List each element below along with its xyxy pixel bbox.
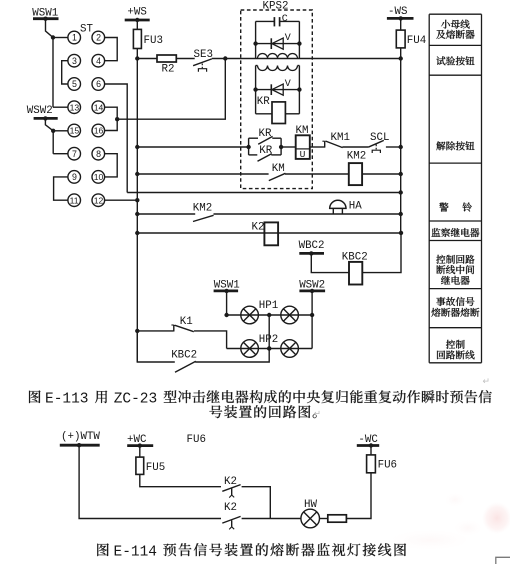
svg-text:9: 9 xyxy=(72,172,77,182)
wire left vertical to KBC2 contact xyxy=(137,331,175,362)
svg-text:KM2: KM2 xyxy=(193,203,212,215)
wire K1 to HP2 rail xyxy=(194,331,227,349)
svg-text:6: 6 xyxy=(96,79,101,89)
pin 8 xyxy=(92,147,105,160)
svg-text:5: 5 xyxy=(72,79,77,89)
pin 13 xyxy=(68,101,81,114)
svg-text:3: 3 xyxy=(72,56,77,66)
wire KPS2 right riser xyxy=(298,21,300,58)
annotation table xyxy=(428,14,430,363)
svg-text:11: 11 xyxy=(70,195,79,205)
caption figure E-114 xyxy=(97,543,108,556)
wire WSW1 drop xyxy=(226,291,228,315)
svg-text:V: V xyxy=(285,79,291,90)
wire pin 12 to left vertical xyxy=(105,199,138,201)
svg-text:ST: ST xyxy=(80,24,93,36)
svg-text:12: 12 xyxy=(94,195,104,205)
wire lamp to resistor xyxy=(320,518,328,520)
svg-text:HP1: HP1 xyxy=(259,300,278,312)
svg-text:10: 10 xyxy=(94,172,104,182)
pin 15 xyxy=(68,124,81,137)
wire WSW1 to pins 1 and 13 xyxy=(46,19,54,108)
wire KPS2 top rail xyxy=(256,20,275,22)
svg-text:KR: KR xyxy=(259,145,272,157)
svg-text:KM: KM xyxy=(272,163,285,175)
wire bracket pins 8-10 xyxy=(105,154,118,177)
resistor R (monitor) xyxy=(328,515,347,522)
table row 试验按钮 xyxy=(436,56,445,65)
svg-text:WSW2: WSW2 xyxy=(27,105,53,117)
svg-text:8: 8 xyxy=(96,149,101,159)
wire rail y214 left xyxy=(137,213,195,215)
svg-text:KR: KR xyxy=(257,96,270,108)
wire resistor to FU6 xyxy=(346,473,371,519)
pin 12 xyxy=(92,194,105,207)
wire KR contacts side rails xyxy=(248,138,250,155)
wire K2-rail corner to KBC2 coil xyxy=(362,233,401,273)
wire box-left to KR contacts xyxy=(137,146,248,148)
wire KR contacts to KM coil xyxy=(281,146,296,148)
pin 2 xyxy=(92,31,105,44)
svg-text:WBC2: WBC2 xyxy=(299,240,325,252)
diode V2 xyxy=(270,84,272,95)
wire bracket pins 14-16 xyxy=(105,107,118,130)
wire rail y233 xyxy=(137,232,401,234)
wire pins14-16 tap to SE3 node xyxy=(117,59,225,120)
wire right bus vertical xyxy=(400,48,402,233)
lamp HP1b xyxy=(281,306,299,324)
wire rail y174 left xyxy=(137,173,268,175)
wire KM coil to KM1 xyxy=(310,146,325,148)
pin 16 xyxy=(92,124,105,137)
wire FU5 to K2 upper xyxy=(140,474,221,486)
wire bracket pins 9-11 xyxy=(54,177,68,200)
svg-text:KPS2: KPS2 xyxy=(263,1,289,13)
pin 9 xyxy=(68,171,81,184)
svg-text:↵: ↵ xyxy=(483,376,491,386)
svg-text:R2: R2 xyxy=(162,64,175,76)
svg-text:15: 15 xyxy=(70,126,80,136)
resistor R2 xyxy=(157,55,176,62)
svg-text:K2: K2 xyxy=(252,221,265,233)
fuse FU5 xyxy=(136,457,144,474)
svg-text:2: 2 xyxy=(96,33,101,43)
svg-text:KM2: KM2 xyxy=(347,151,366,163)
svg-text:KM1: KM1 xyxy=(331,132,350,144)
wire WBC2 to KBC2 coil xyxy=(311,253,349,272)
svg-text:FU6: FU6 xyxy=(378,460,397,472)
wire bracket pins 3-5 xyxy=(62,61,68,84)
svg-text:K1: K1 xyxy=(180,316,193,328)
svg-text:E-113: E-113 xyxy=(45,392,89,408)
wire WSW2 to pins 15 and 7 xyxy=(45,118,53,153)
fuse FU6 xyxy=(367,455,376,473)
wire WTW down to bottom rail xyxy=(79,445,221,518)
table row 警铃 xyxy=(439,203,448,212)
fuse FU4 xyxy=(396,30,405,48)
corner box fragment xyxy=(496,557,510,564)
svg-text:K2: K2 xyxy=(224,502,237,514)
svg-text:HA: HA xyxy=(349,201,362,213)
wire +WS to FU3 xyxy=(136,20,138,29)
pin 4 xyxy=(92,54,105,67)
pin 14 xyxy=(92,101,105,114)
pin 10 xyxy=(92,171,105,184)
svg-text:16: 16 xyxy=(94,126,104,136)
svg-text:↵: ↵ xyxy=(314,409,322,419)
table row 监察继电器 xyxy=(431,228,440,237)
svg-text:-WS: -WS xyxy=(388,6,407,18)
pin 1 xyxy=(68,31,81,44)
svg-text:13: 13 xyxy=(70,102,80,112)
diode V1 xyxy=(270,38,272,49)
pin 5 xyxy=(68,78,81,91)
watermark blob xyxy=(482,502,510,534)
table row 小母线及熔断器 xyxy=(441,20,450,29)
wire pin 6 to lower rail xyxy=(105,84,128,193)
svg-text:U: U xyxy=(300,149,306,160)
wire FU6 to -WC xyxy=(370,446,372,455)
svg-text:14: 14 xyxy=(94,102,104,112)
svg-text:KBC2: KBC2 xyxy=(171,350,197,362)
svg-text:FU4: FU4 xyxy=(407,35,426,47)
wire diode V2 rail xyxy=(256,89,300,91)
capacitor C xyxy=(273,17,275,26)
wire K2 upper to drop xyxy=(242,487,271,519)
wire secondary left riser xyxy=(255,66,257,114)
svg-text:FU5: FU5 xyxy=(146,462,165,474)
wire KPS2 left riser xyxy=(255,21,257,58)
svg-text:ZC-23: ZC-23 xyxy=(114,392,158,408)
table row 控制回路断线中间继电器 xyxy=(436,255,445,264)
wire diode V1 rail xyxy=(256,43,300,45)
wire -WS to FU4 xyxy=(400,18,402,30)
relay KPS2 dashed box xyxy=(241,10,313,189)
wire rail y192 (pin6 to -WS vertical) xyxy=(127,192,401,194)
wire lower rail to lamp xyxy=(242,518,301,520)
bell HA xyxy=(330,200,346,208)
svg-text:(+)WTW: (+)WTW xyxy=(61,431,100,443)
wire bracket pins 2-4 xyxy=(105,38,118,61)
wire left vertical (FU3 down) xyxy=(136,49,138,363)
wire HP1 rail xyxy=(227,314,313,316)
svg-text:4: 4 xyxy=(96,56,101,66)
table row 事故信号熔断器熔断 xyxy=(436,297,445,306)
pin 3 xyxy=(68,54,81,67)
lamp HP2b xyxy=(281,340,299,358)
wire WSW2 drop xyxy=(311,291,313,349)
svg-text:1: 1 xyxy=(72,33,77,43)
svg-text:C: C xyxy=(282,14,288,25)
svg-text:V: V xyxy=(285,33,291,44)
wire +WC to FU5 xyxy=(139,446,141,458)
table row 控制回路断线 xyxy=(446,340,455,349)
fuse FU3 xyxy=(133,29,141,48)
pin 11 xyxy=(68,194,81,207)
wire rail y214 right xyxy=(214,213,401,215)
wire to R2 xyxy=(137,58,157,60)
lamp HP2a xyxy=(241,340,259,358)
svg-text:+WS: +WS xyxy=(127,7,146,19)
pin 6 xyxy=(92,78,105,91)
wire HP2 rail xyxy=(227,348,313,350)
svg-text:FU3: FU3 xyxy=(144,35,163,47)
wire KBC2 contact to lamp mid xyxy=(195,315,269,362)
svg-text:7: 7 xyxy=(72,149,77,159)
svg-text:FU6: FU6 xyxy=(187,434,206,446)
wire SE3 to KPS2 and -WS vertical xyxy=(212,58,401,60)
caption figure E-113 xyxy=(29,390,40,403)
pin 7 xyxy=(68,147,81,160)
wire R2 to SE3 xyxy=(176,58,194,60)
wire secondary right riser xyxy=(298,66,300,114)
lamp HP1a xyxy=(241,306,259,324)
transformer secondary winding xyxy=(256,65,258,67)
transformer primary winding xyxy=(258,54,298,59)
svg-text:E-114: E-114 xyxy=(114,545,158,561)
table row 解除按钮 xyxy=(436,141,445,150)
